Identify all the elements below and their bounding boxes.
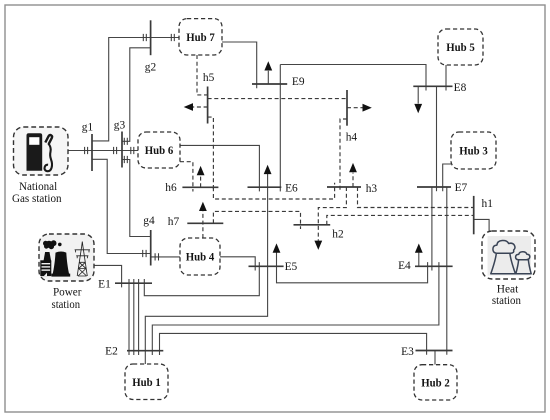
svg-text:E7: E7	[455, 182, 468, 194]
wire E1-E2 a	[128, 279, 130, 355]
compressor ticks g3-g4 stub	[124, 156, 127, 163]
wire gas station to g1-g3-Hub6 main	[68, 150, 138, 152]
svg-text:Hub 2: Hub 2	[421, 377, 450, 390]
wire E3-Hub2	[434, 351, 436, 365]
arrow down at E8	[417, 86, 419, 103]
arrow up at E6	[264, 165, 272, 174]
hub box Hub 2	[414, 365, 457, 400]
svg-text:g1: g1	[82, 122, 94, 134]
heat wire Hub6-h6	[180, 162, 193, 192]
hub box Hub 4	[180, 238, 220, 275]
svg-text:h5: h5	[203, 72, 215, 84]
svg-text:E3: E3	[401, 346, 414, 358]
svg-text:h2: h2	[332, 229, 344, 241]
wire E2-E3	[160, 333, 427, 355]
heat wire h3-h2 with down arrow	[318, 187, 346, 241]
compressor ticks g2-Hub7	[171, 34, 174, 41]
heat arrow right at h4	[347, 107, 363, 109]
compressor ticks g1-g4	[143, 250, 146, 257]
hub box Hub 6	[138, 132, 180, 168]
svg-text:g2: g2	[145, 62, 157, 74]
bus E9	[252, 83, 287, 85]
bus h2	[294, 224, 331, 226]
wire E9-E8 top	[280, 65, 426, 91]
wire g1-g4	[92, 159, 151, 253]
wire Hub5-E8	[445, 65, 447, 91]
heat station icon	[491, 240, 531, 273]
compressor ticks g3-Hub6	[131, 147, 134, 154]
wire E7-E4	[431, 187, 433, 271]
bus h5	[207, 87, 209, 124]
svg-text:g4: g4	[143, 215, 155, 227]
station box National Gas station	[14, 127, 69, 175]
bus E4	[415, 265, 453, 267]
heat wire h2-h1	[327, 215, 474, 224]
heat arrow up at h6	[200, 176, 202, 188]
wire Hub7-E9	[222, 42, 257, 88]
gas pump icon	[27, 133, 53, 171]
hub box Hub 5	[438, 29, 483, 65]
heat wire h4-h3	[340, 119, 347, 191]
compressor ticks g4-Hub4	[155, 253, 158, 260]
wire E9-E6 vertical	[279, 65, 281, 192]
svg-text:E9: E9	[292, 76, 305, 88]
bus h7	[187, 222, 223, 224]
compressor ticks g2 left	[143, 34, 146, 41]
bus E6	[248, 186, 282, 188]
wire g2-g3	[122, 48, 151, 142]
svg-text:Hub 4: Hub 4	[186, 251, 215, 264]
bus h6	[182, 186, 218, 188]
arrow up at E4	[418, 253, 420, 267]
heat wire Hub7-h5	[197, 55, 208, 95]
arrow up at E5	[273, 243, 281, 252]
station box Power station	[39, 234, 94, 281]
svg-text:h3: h3	[366, 183, 378, 195]
svg-text:Hub 7: Hub 7	[186, 31, 215, 44]
bus E8	[413, 85, 452, 87]
bus g2	[150, 20, 152, 55]
bus h4	[346, 90, 348, 126]
wire E1-E2 c	[138, 279, 140, 355]
svg-text:h4: h4	[346, 131, 358, 143]
svg-text:E8: E8	[454, 82, 467, 94]
compressor ticks g2-g3 stub	[124, 138, 127, 145]
wire g3-g4	[122, 160, 151, 237]
heat wire h6-h3	[213, 183, 334, 199]
svg-text:Hub 5: Hub 5	[446, 41, 475, 54]
svg-text:E1: E1	[98, 279, 111, 291]
svg-text:station: station	[492, 293, 521, 307]
station box Heat station	[482, 231, 535, 279]
heat wire h7-h2	[213, 211, 300, 229]
svg-text:E2: E2	[105, 346, 118, 358]
wire g1-g2-Hub7	[92, 38, 179, 141]
heat arrow left at h5	[193, 106, 208, 108]
bus h1	[473, 196, 475, 234]
power station icon	[40, 240, 90, 276]
svg-text:station: station	[52, 297, 81, 311]
bus g4	[150, 230, 152, 266]
compressor ticks station-g1	[85, 147, 88, 154]
hub box Hub 1	[125, 364, 168, 400]
heat wire h5-h6	[208, 117, 214, 191]
svg-text:E5: E5	[285, 261, 298, 273]
wire h1 to heat station	[474, 219, 489, 231]
wire E7-E3	[446, 187, 448, 355]
wire Hub4-E5	[220, 257, 255, 271]
svg-text:h6: h6	[165, 182, 177, 194]
compressor ticks g1-g3	[114, 147, 117, 154]
wire E8-E7	[436, 86, 438, 191]
bus E1	[115, 282, 152, 284]
heat wire h3-h1	[358, 187, 474, 208]
wire E1-E2 b	[133, 279, 135, 355]
svg-text:E6: E6	[285, 182, 298, 194]
svg-text:Hub 1: Hub 1	[132, 376, 161, 389]
wire Hub6-E6	[180, 145, 259, 191]
svg-text:g3: g3	[114, 120, 126, 132]
svg-text:Gas station: Gas station	[12, 191, 62, 205]
svg-text:h1: h1	[482, 198, 494, 210]
heat arrow up at h3	[352, 173, 354, 187]
wire E1-E5	[144, 262, 259, 296]
arrow up at E9	[267, 71, 269, 84]
hub box Hub 3	[451, 132, 496, 169]
wire g4-Hub4	[151, 256, 180, 258]
heat wire h5-h4	[208, 98, 347, 100]
bus E7	[417, 186, 451, 188]
bus E3	[416, 350, 453, 352]
bus g1	[91, 134, 93, 171]
wire E2-E4	[152, 262, 439, 355]
bus h3	[327, 186, 361, 188]
hub box Hub 7	[179, 19, 222, 55]
bus E5	[249, 265, 284, 267]
wire power station to E1	[94, 265, 122, 287]
bus g3	[121, 132, 123, 168]
wire Hub1-E2-E6 with arrow	[145, 172, 267, 365]
wire Hub3-E7	[443, 164, 451, 191]
heat wire Hub4-h7 with arrow	[202, 210, 204, 238]
wire E5-E4 with arrow at E5	[277, 252, 428, 282]
svg-text:Hub 6: Hub 6	[145, 144, 174, 157]
svg-text:h7: h7	[168, 216, 180, 228]
svg-text:Hub 3: Hub 3	[459, 145, 488, 158]
bus E2	[127, 350, 163, 352]
svg-text:E4: E4	[398, 260, 411, 272]
